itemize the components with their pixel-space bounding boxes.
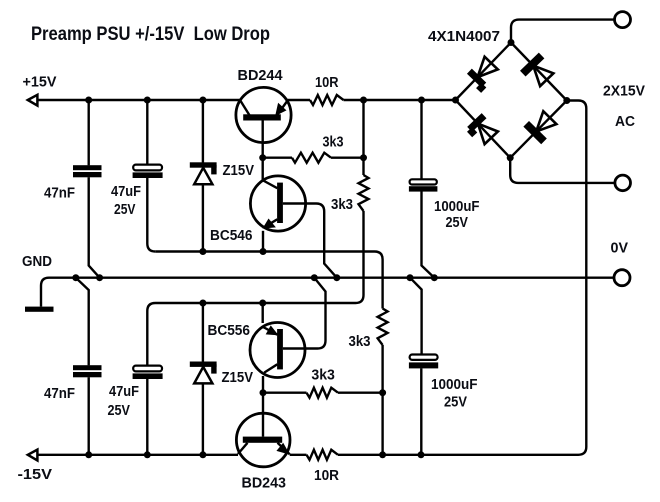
junction dot BC546 emitter bbox=[260, 248, 267, 255]
title Preamp PSU bbox=[31, 23, 270, 45]
diode D1 1N4007 (top-left) bbox=[469, 57, 497, 91]
junction dot GND BC556 base bbox=[311, 274, 318, 281]
label 25V 47uF bottom bbox=[108, 403, 131, 419]
junction dot BD244 base node bbox=[259, 154, 266, 161]
transistor Q1 BD244 (PNP pass transistor) bbox=[236, 87, 291, 142]
wire positive zener rail bbox=[155, 250, 374, 252]
label 47nF top bbox=[44, 186, 75, 202]
svg-text:Z15V: Z15V bbox=[222, 370, 254, 386]
wire bridge top corner to AC terminal 1 bbox=[511, 20, 614, 43]
svg-text:3k3: 3k3 bbox=[349, 334, 371, 350]
label BC556 bbox=[208, 323, 251, 339]
svg-text:0V: 0V bbox=[611, 241, 629, 257]
svg-text:3k3: 3k3 bbox=[331, 197, 353, 213]
label 3k3 horizontal top bbox=[323, 135, 344, 151]
label 47uF top bbox=[111, 184, 141, 200]
junction dot GND 47nF lower bbox=[72, 274, 79, 281]
capacitor 47uF 25V (negative, electrolytic) bbox=[133, 366, 163, 455]
wire BC556 base to 0V rail bbox=[283, 278, 326, 349]
svg-text:Z15V: Z15V bbox=[223, 163, 255, 179]
junction dot 1000uF bottom bbox=[418, 451, 425, 458]
svg-text:AC: AC bbox=[615, 114, 635, 130]
junction dot BC556 emitter bbox=[259, 300, 266, 307]
junction dot Z15V bottom rail bbox=[199, 300, 206, 307]
wire 10R to input node bbox=[344, 99, 457, 101]
label 47uF bottom bbox=[109, 384, 139, 400]
label Z15V bottom bbox=[222, 370, 254, 386]
wire input node down to 3k3 junction bbox=[362, 100, 364, 158]
svg-text:+15V: +15V bbox=[23, 75, 57, 91]
label 2X15V bbox=[603, 84, 645, 100]
junction dot Z15V anode bbox=[199, 248, 206, 255]
wire BC546 base to 0V rail bbox=[283, 204, 337, 278]
junction dot Z15V top bbox=[199, 97, 206, 104]
label 10R bbox=[315, 75, 339, 91]
svg-text:Preamp PSU +/-15V Low Drop: Preamp PSU +/-15V Low Drop bbox=[31, 23, 270, 45]
svg-text:47nF: 47nF bbox=[44, 386, 75, 402]
label BC546 bbox=[210, 228, 253, 244]
junction dot GND 47nF upper bbox=[96, 274, 103, 281]
junction dot bridge bottom corner bbox=[507, 154, 514, 161]
wire BD244 base vertical bbox=[262, 121, 264, 181]
zener diode Z15V (negative) bbox=[190, 303, 217, 455]
svg-text:-15V: -15V bbox=[18, 467, 53, 483]
svg-text:47uF: 47uF bbox=[109, 384, 139, 400]
junction dot 3k3 to negative input bbox=[379, 389, 386, 396]
svg-text:47uF: 47uF bbox=[111, 184, 141, 200]
zener diode Z15V (positive) bbox=[190, 100, 217, 252]
wire BD244 emitter to 10R bbox=[288, 99, 310, 101]
junction dot Z15V bottom bbox=[199, 451, 206, 458]
svg-text:BD244: BD244 bbox=[238, 68, 283, 84]
capacitor 1000uF 25V (positive) bbox=[409, 100, 438, 278]
svg-text:2X15V: 2X15V bbox=[603, 84, 645, 100]
wire E+ rail corner down / resistor 3k3 (zener bias, vertical) bbox=[375, 252, 388, 455]
label GND bbox=[22, 254, 52, 270]
svg-text:1000uF: 1000uF bbox=[431, 377, 478, 393]
junction dot 47uF bottom bbox=[144, 451, 151, 458]
label 1000uF top bbox=[434, 199, 480, 215]
transistor Q2 BC546 (NPN) bbox=[250, 176, 305, 252]
label -15V bbox=[18, 467, 53, 483]
junction dot 47nF top bbox=[85, 97, 92, 104]
terminal 0V bbox=[614, 270, 630, 286]
wire negative zener rail bbox=[147, 303, 355, 366]
svg-text:25V: 25V bbox=[444, 395, 467, 411]
capacitor 47nF (negative) bbox=[73, 278, 102, 455]
svg-text:25V: 25V bbox=[108, 403, 131, 419]
diode D2 1N4007 (top-right) bbox=[523, 56, 554, 87]
wire bridge bottom corner to AC terminal 2 bbox=[510, 158, 615, 183]
terminal AC 1 bbox=[615, 12, 631, 28]
label AC bbox=[615, 114, 635, 130]
junction dot bridge right corner bbox=[563, 97, 570, 104]
junction dot 47uF top bbox=[144, 97, 151, 104]
resistor 3k3 (BD243 base to negative input) bbox=[263, 388, 383, 398]
capacitor 47nF (positive) bbox=[73, 100, 102, 278]
label 1000uF bottom bbox=[431, 377, 478, 393]
junction dot GND BC546 base bbox=[333, 274, 340, 281]
capacitor 47uF 25V (positive, electrolytic) bbox=[133, 100, 163, 252]
junction dot bridge left corner bbox=[452, 97, 459, 104]
wire +15V rail bbox=[37, 99, 240, 101]
label 3k3 horizontal bottom bbox=[311, 368, 335, 384]
label 3k3 vertical top bbox=[331, 197, 353, 213]
svg-text:10R: 10R bbox=[314, 468, 339, 484]
label 3k3 vertical bottom bbox=[349, 334, 371, 350]
capacitor 1000uF 25V (negative) bbox=[409, 278, 438, 455]
label Z15V top bbox=[223, 163, 255, 179]
svg-text:GND: GND bbox=[22, 254, 52, 270]
svg-text:47nF: 47nF bbox=[44, 186, 75, 202]
resistor 10R (positive rail) bbox=[310, 95, 344, 105]
transistor Q3 BC556 (PNP) bbox=[250, 303, 305, 393]
wire 10R to negative input node bbox=[338, 454, 567, 456]
label 25V 1000uF top bbox=[446, 215, 469, 231]
svg-text:3k3: 3k3 bbox=[323, 135, 344, 151]
node -15V output rail arrow bbox=[28, 450, 38, 461]
label 4X1N4007 bbox=[428, 29, 500, 45]
ground symbol bbox=[25, 278, 76, 312]
junction dot bridge top corner bbox=[508, 39, 515, 46]
svg-text:3k3: 3k3 bbox=[311, 368, 335, 384]
wire 0V rail bbox=[76, 277, 614, 279]
svg-text:1000uF: 1000uF bbox=[434, 199, 480, 215]
label 25V 47uF top bbox=[114, 202, 136, 218]
junction dot negative input 3k3 bbox=[379, 451, 386, 458]
junction dot 47nF bottom bbox=[85, 451, 92, 458]
junction dot GND 1000uF upper bbox=[431, 274, 438, 281]
node +15V output rail arrow bbox=[28, 95, 38, 106]
resistor 10R (negative rail) bbox=[307, 450, 339, 460]
junction dot GND 1000uF lower bbox=[407, 274, 414, 281]
resistor 3k3 (input node to negative zener rail) bbox=[356, 158, 369, 303]
wire bridge edge bottom-left bbox=[456, 100, 511, 158]
svg-text:10R: 10R bbox=[315, 75, 339, 91]
label 10R bottom bbox=[314, 468, 339, 484]
svg-text:BD243: BD243 bbox=[242, 476, 287, 492]
label +15V bbox=[23, 75, 57, 91]
wire DC minus from bridge right corner down right side bbox=[567, 101, 587, 455]
label 25V 1000uF bottom bbox=[444, 395, 467, 411]
svg-text:25V: 25V bbox=[446, 215, 469, 231]
terminal AC 2 bbox=[615, 175, 631, 191]
junction dot 1000uF top bbox=[418, 97, 425, 104]
junction dot input node / 3k3 tap bbox=[360, 97, 367, 104]
svg-text:4X1N4007: 4X1N4007 bbox=[428, 29, 500, 45]
svg-text:BC546: BC546 bbox=[210, 228, 253, 244]
resistor 3k3 (BD244 base to input) bbox=[263, 153, 364, 163]
transistor Q4 BD243 (NPN pass transistor) bbox=[236, 393, 290, 467]
diode D4 1N4007 (bottom-right) bbox=[526, 111, 556, 141]
junction dot 3k3 right bbox=[360, 154, 367, 161]
svg-text:BC556: BC556 bbox=[208, 323, 251, 339]
junction dot BD243 base node bbox=[260, 389, 267, 396]
label BD243 bbox=[242, 476, 287, 492]
label BD244 bbox=[238, 68, 283, 84]
svg-text:25V: 25V bbox=[114, 202, 136, 218]
label 0V bbox=[611, 241, 629, 257]
label 47nF bottom bbox=[44, 386, 75, 402]
wire bridge edge bottom-right bbox=[510, 101, 567, 158]
wire bridge edge top-right bbox=[511, 43, 567, 101]
wire bridge edge top-left bbox=[456, 43, 512, 101]
wire BD243 emitter to 10R bbox=[290, 454, 307, 456]
wire -15V rail bbox=[37, 454, 238, 456]
diode D3 1N4007 (bottom-left) bbox=[470, 116, 498, 144]
